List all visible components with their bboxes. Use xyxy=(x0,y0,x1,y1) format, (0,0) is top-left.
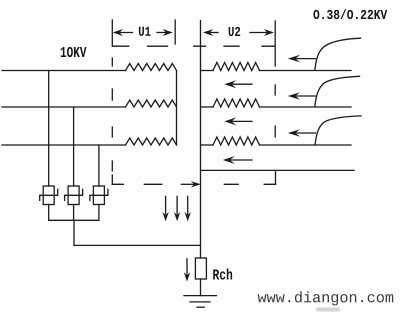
current arrow feeder b xyxy=(288,92,316,100)
arrester F3 xyxy=(90,186,108,205)
dimension arrow U2 right xyxy=(250,29,274,36)
secondary winding b xyxy=(213,99,260,107)
wire feeder c xyxy=(260,144,352,146)
wire secondary stub c xyxy=(201,144,214,146)
dimension arrow U1 right xyxy=(157,29,173,36)
primary winding B xyxy=(126,100,177,107)
wire arrester bus drop xyxy=(73,220,75,245)
label U1 xyxy=(139,27,151,36)
current arrow feeder a xyxy=(288,55,316,63)
label 0.38/0.22KV xyxy=(313,9,387,19)
wire arrester tap A xyxy=(48,71,50,187)
wire Rch to ground xyxy=(200,279,202,296)
watermark www.diangon.com xyxy=(258,291,394,305)
wire feeder b xyxy=(260,106,352,108)
flux arrow 3 xyxy=(184,196,191,221)
resistor Rch xyxy=(195,258,206,279)
dimension arrow U2 left xyxy=(203,29,218,36)
dashed bottom edge arrow into neutral bus xyxy=(181,181,201,187)
wire secondary stub b xyxy=(201,106,214,108)
ground xyxy=(184,296,216,308)
dashed enclosure top edge xyxy=(113,45,275,47)
dashed enclosure bottom edge xyxy=(112,183,162,185)
wire phase B from left xyxy=(2,106,126,108)
secondary winding a xyxy=(213,63,260,71)
current arrow winding a xyxy=(224,80,252,88)
wire arrester A lead down xyxy=(48,205,50,221)
dashed enclosure left edge xyxy=(111,58,113,184)
wire arrester tap B xyxy=(73,107,75,186)
dashed enclosure right edge xyxy=(274,85,276,137)
primary star point bus xyxy=(176,71,178,146)
wire arrester C lead down xyxy=(98,205,100,221)
wire neutral drop to enclosure xyxy=(275,170,277,184)
secondary neutral bus xyxy=(200,21,202,259)
current arrow Rch xyxy=(184,259,191,282)
wire phase C from left xyxy=(2,144,126,146)
label Rch xyxy=(213,268,232,279)
wire secondary stub a xyxy=(201,70,214,72)
dashed enclosure bottom edge right part xyxy=(224,183,275,185)
wire feeder a xyxy=(260,70,352,72)
wire arrester bus to neutral bus xyxy=(74,244,201,246)
current arrow feeder c xyxy=(288,129,316,137)
current arrow winding c xyxy=(223,156,252,164)
wire neutral feeder xyxy=(201,169,355,171)
arrester F2 xyxy=(65,186,83,205)
load curve feeder c xyxy=(315,116,361,145)
primary winding C xyxy=(126,138,177,145)
load curve feeder b xyxy=(315,76,360,106)
primary winding A xyxy=(126,64,177,71)
wire arrester B lead down xyxy=(73,205,75,221)
flux arrow 1 xyxy=(162,196,169,221)
wire arrester common bus xyxy=(49,219,99,221)
wire arrester tap C xyxy=(98,145,100,186)
dimension line U1 right boundary xyxy=(174,20,176,44)
load curve feeder a xyxy=(315,38,361,70)
label U2 xyxy=(229,27,241,36)
dimension line U1 left boundary xyxy=(111,20,113,46)
watermark smudge xyxy=(316,308,340,312)
dimension line U2 right boundary xyxy=(274,21,276,66)
wire phase A from left xyxy=(2,70,126,72)
secondary winding c xyxy=(213,137,260,145)
current arrow winding b xyxy=(224,117,252,125)
flux arrow 2 xyxy=(174,196,181,221)
label 10KV xyxy=(61,47,87,57)
dimension arrow U1 left xyxy=(113,29,133,36)
arrester F1 xyxy=(40,186,58,205)
